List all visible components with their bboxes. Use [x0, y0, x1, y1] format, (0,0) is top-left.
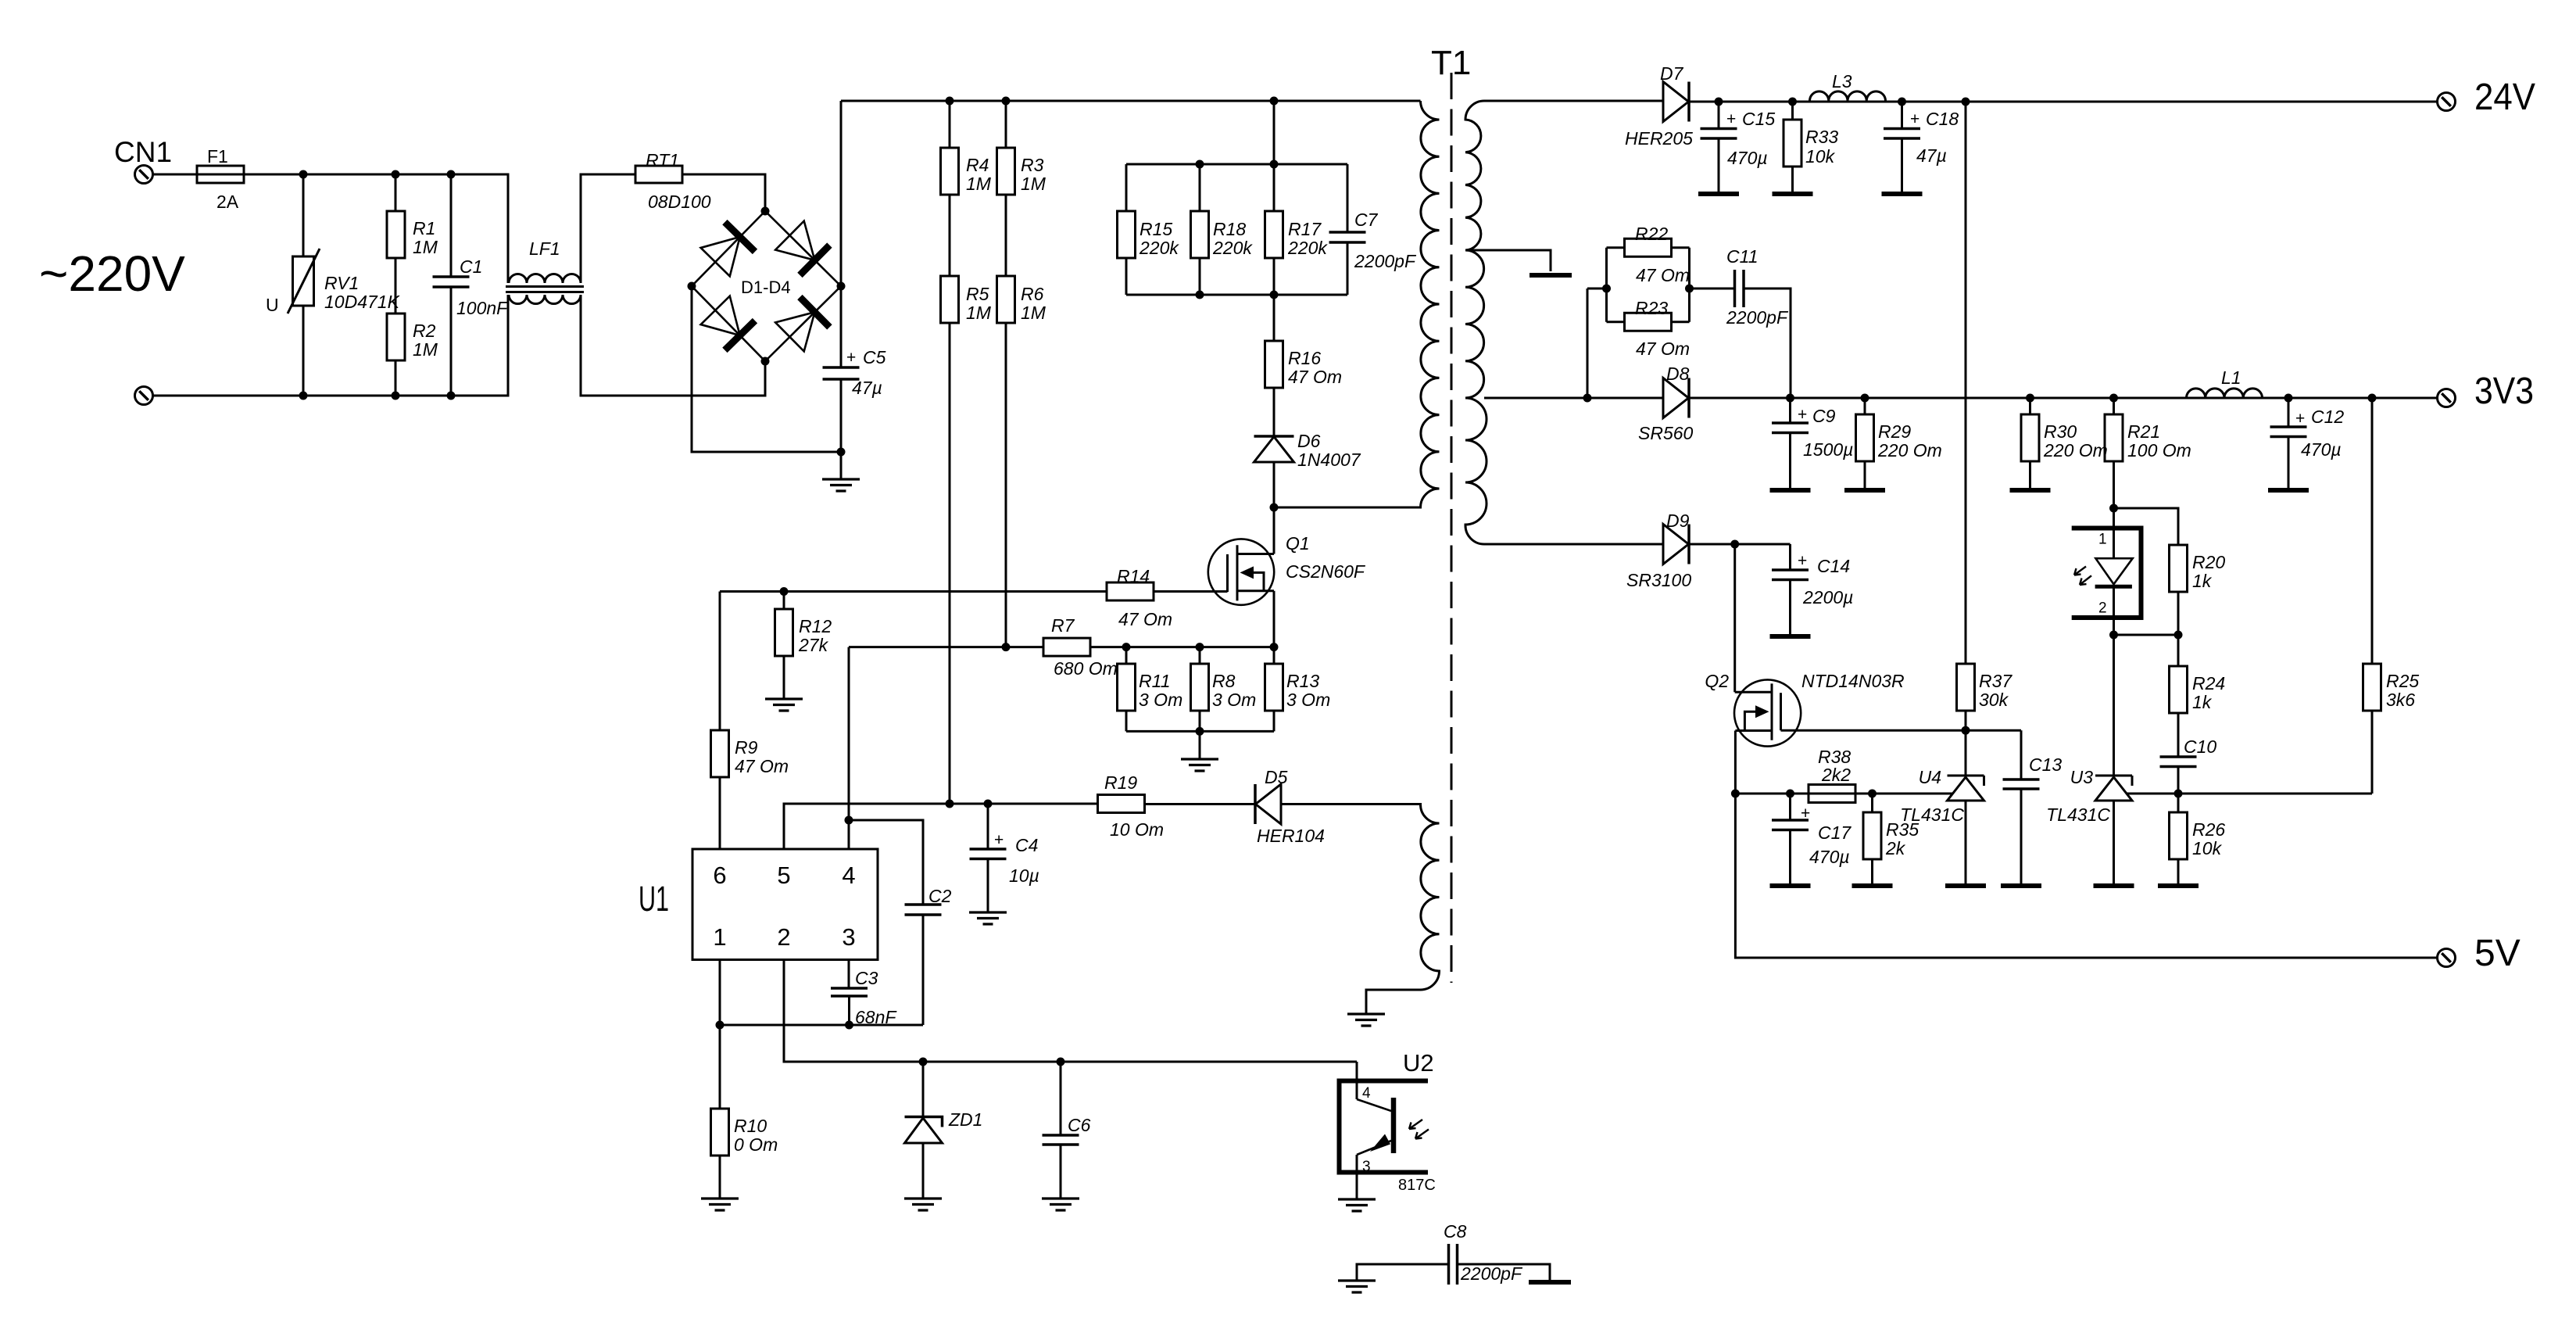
- svg-text:47µ: 47µ: [1916, 145, 1947, 166]
- svg-text:220 Om: 220 Om: [1877, 440, 1942, 460]
- svg-text:2200pF: 2200pF: [1354, 251, 1417, 271]
- svg-text:2: 2: [2098, 600, 2107, 617]
- resistor R38: [1809, 785, 1855, 803]
- capacitor C18: [1901, 102, 1903, 129]
- svg-text:47 Om: 47 Om: [1636, 339, 1690, 359]
- transistor Q1 CS2N60F: [1208, 539, 1274, 604]
- svg-text:U4: U4: [1919, 767, 1941, 787]
- ground C12: [2268, 488, 2309, 493]
- svg-text:R12: R12: [799, 616, 832, 636]
- wire 3V3 to R25: [2371, 398, 2374, 664]
- node C9: [1786, 394, 1794, 403]
- wire R19 to D5: [1145, 803, 1256, 805]
- svg-text:4: 4: [1362, 1085, 1371, 1102]
- svg-text:4: 4: [842, 862, 855, 889]
- ground below R10: [719, 1156, 721, 1199]
- wire U3 anode ground: [2113, 801, 2115, 884]
- node R33: [1788, 98, 1797, 106]
- svg-text:+: +: [1798, 406, 1807, 424]
- svg-text:~220V: ~220V: [39, 245, 185, 302]
- capacitor C1: [450, 174, 453, 277]
- svg-text:LF1: LF1: [529, 238, 560, 259]
- diode D5 HER104: [1255, 784, 1281, 824]
- resistor R26: [2177, 794, 2180, 812]
- svg-text:C12: C12: [2311, 407, 2344, 427]
- bridge rectifier D1-D4 diamond: [692, 211, 841, 361]
- svg-text:5V: 5V: [2474, 933, 2521, 974]
- ground R33: [1773, 192, 1813, 196]
- ground R30: [2010, 488, 2051, 493]
- resistor R21: [2113, 398, 2115, 414]
- wire R25 to ref rail: [2371, 711, 2374, 794]
- wire LED node to R20: [2114, 508, 2179, 545]
- svg-text:R21: R21: [2127, 421, 2160, 442]
- svg-text:6: 6: [713, 862, 726, 889]
- svg-text:24V: 24V: [2474, 77, 2535, 118]
- svg-text:D6: D6: [1297, 431, 1321, 451]
- node R30: [2026, 394, 2034, 403]
- shunt regulator U4 TL431C: [1948, 776, 1984, 801]
- wire Q2 source lead: [1734, 731, 1737, 794]
- svg-text:R13: R13: [1286, 671, 1319, 691]
- svg-text:R23: R23: [1635, 298, 1668, 318]
- resistor R25: [2363, 664, 2381, 711]
- svg-text:R37: R37: [1979, 671, 2012, 691]
- capacitor C17: [1789, 794, 1791, 820]
- svg-text:680 Om: 680 Om: [1054, 658, 1118, 679]
- resistor R35: [1871, 794, 1873, 812]
- svg-text:3k6: 3k6: [2386, 690, 2415, 710]
- node sense bottom: [1196, 727, 1204, 736]
- svg-text:C5: C5: [863, 347, 886, 367]
- wire snubber top rail: [1126, 163, 1347, 166]
- svg-text:R30: R30: [2044, 421, 2077, 442]
- svg-text:D1-D4: D1-D4: [741, 278, 791, 297]
- svg-text:100nF: 100nF: [456, 298, 509, 318]
- bridge diode top-right: [775, 220, 829, 275]
- node C10-R26: [2174, 790, 2183, 798]
- T1 core dashed line: [1451, 73, 1453, 983]
- wire LED node down to U3: [2113, 635, 2115, 776]
- wire C8 left to ground: [1357, 1264, 1449, 1281]
- resistor R6: [997, 276, 1015, 323]
- opto LED light arrows: [2074, 567, 2091, 586]
- node sense R11: [1122, 643, 1131, 651]
- wire Q2 source rail: [1735, 793, 1952, 795]
- node neutral-C1: [447, 392, 456, 400]
- svg-text:2200µ: 2200µ: [1802, 587, 1853, 607]
- capacitor C9: [1789, 398, 1791, 423]
- fuse F1: [197, 166, 244, 183]
- svg-text:470µ: 470µ: [2301, 439, 2342, 460]
- svg-text:R25: R25: [2386, 671, 2419, 691]
- svg-text:D5: D5: [1265, 767, 1288, 787]
- svg-text:NTD14N03R: NTD14N03R: [1801, 671, 1905, 691]
- svg-text:10µ: 10µ: [1009, 865, 1039, 886]
- svg-text:1: 1: [2098, 532, 2107, 548]
- wire LF1 bottom to bridge bottom: [581, 295, 765, 396]
- svg-text:3 Om: 3 Om: [1286, 690, 1330, 710]
- svg-text:10k: 10k: [1805, 146, 1836, 167]
- terminal 5V: [2438, 949, 2456, 967]
- resistor R12: [783, 592, 785, 610]
- svg-text:0 Om: 0 Om: [734, 1134, 778, 1155]
- capacitor C12: [2288, 398, 2290, 427]
- wire 5V return: [1735, 794, 2437, 958]
- resistor R13: [1273, 647, 1275, 664]
- U2 light arrows: [1409, 1120, 1429, 1139]
- resistor R30: [2029, 398, 2031, 414]
- resistor R37: [1957, 664, 1975, 711]
- svg-text:R2: R2: [413, 321, 436, 341]
- capacitor C15: [1718, 102, 1720, 129]
- svg-text:C9: C9: [1812, 406, 1836, 426]
- svg-text:R29: R29: [1878, 421, 1911, 442]
- wire pin5 to PWM rail: [784, 804, 1098, 849]
- svg-text:2k: 2k: [1885, 838, 1906, 858]
- svg-text:220k: 220k: [1139, 238, 1179, 258]
- svg-text:+: +: [846, 349, 856, 367]
- wire live terminal to fuse: [152, 174, 197, 176]
- svg-text:220 Om: 220 Om: [2043, 440, 2108, 460]
- svg-text:C13: C13: [2029, 754, 2062, 775]
- ground R26: [2158, 883, 2199, 888]
- resistor R2: [387, 314, 405, 360]
- svg-text:F1: F1: [207, 146, 228, 167]
- ground below R12: [783, 656, 785, 699]
- wire R4-R5: [949, 195, 951, 276]
- svg-text:2200pF: 2200pF: [1726, 307, 1789, 328]
- wire R1-R2: [395, 258, 397, 314]
- wire U4 anode to ground: [1965, 801, 1967, 884]
- svg-text:1M: 1M: [1021, 303, 1046, 323]
- resistor R29: [1864, 398, 1866, 414]
- node sense R8: [1196, 643, 1204, 651]
- wire C11 to C9 node: [1744, 288, 1791, 398]
- capacitor C3: [831, 988, 868, 996]
- T1 secondary winding lower: [1465, 398, 1663, 544]
- capacitor C8: [1449, 1244, 1458, 1285]
- wire bridge DC- to ground node: [692, 286, 841, 452]
- capacitor C13: [2020, 730, 2023, 779]
- ground sense: [1199, 731, 1201, 759]
- svg-text:SR560: SR560: [1638, 423, 1694, 443]
- node gate rail R12: [780, 587, 789, 596]
- svg-text:R16: R16: [1288, 348, 1321, 368]
- svg-text:1: 1: [713, 923, 726, 951]
- inductor L3: [1793, 101, 1810, 103]
- resistor R14 gate: [1107, 582, 1154, 600]
- ground below ZD1: [904, 1199, 942, 1210]
- zener ZD1: [922, 1062, 925, 1117]
- resistor R33: [1791, 102, 1794, 120]
- node R38 right: [1868, 790, 1877, 798]
- resistor R9: [711, 730, 729, 777]
- resistor R4: [949, 101, 951, 148]
- shunt regulator U3 TL431C: [2095, 776, 2132, 801]
- capacitor C4: [987, 804, 989, 849]
- svg-text:SR3100: SR3100: [1626, 570, 1691, 590]
- wire Q1 drain: [1273, 507, 1275, 554]
- svg-text:08D100: 08D100: [648, 192, 711, 212]
- terminal CN1 live: [135, 166, 153, 184]
- svg-text:1M: 1M: [966, 174, 992, 194]
- wire pin1 down: [719, 960, 721, 1109]
- svg-text:U: U: [266, 295, 279, 315]
- node live-RV1: [299, 170, 308, 179]
- svg-text:+: +: [2295, 410, 2305, 428]
- T1 secondary center tap to ground bar: [1465, 250, 1551, 271]
- svg-text:CS2N60F: CS2N60F: [1286, 561, 1366, 582]
- wire R21 to opto LED: [2113, 461, 2115, 508]
- svg-text:C3: C3: [855, 968, 878, 988]
- wire branch to C2: [849, 820, 923, 905]
- wire fuse to LF1 top: [244, 174, 508, 283]
- wire C2 down to pin1 rail: [922, 915, 925, 1025]
- wire D6 anode to drain node: [1273, 462, 1275, 507]
- svg-text:R5: R5: [966, 284, 989, 304]
- wire 24V rail: [1689, 101, 2437, 103]
- ground U2 pin3: [1338, 1199, 1376, 1211]
- node HV-R3: [1002, 97, 1011, 106]
- node bridge top: [761, 207, 770, 216]
- node neutral-RV1: [299, 392, 308, 400]
- wire R9 to U1 pin6: [719, 777, 721, 849]
- capacitor C11: [1690, 288, 1735, 290]
- wire R7 to sense rail: [1090, 646, 1274, 648]
- wire LED bottom to R20 bottom: [2114, 634, 2179, 636]
- wire pin1 ground rail: [720, 1024, 923, 1027]
- node gate-R37: [1962, 726, 1970, 735]
- svg-text:1N4007: 1N4007: [1297, 450, 1361, 470]
- node R21: [2109, 394, 2118, 403]
- common-mode choke LF1: [509, 274, 581, 284]
- node C5 minus: [837, 448, 846, 457]
- svg-text:5: 5: [777, 862, 790, 889]
- svg-text:10D471K: 10D471K: [324, 292, 401, 312]
- svg-text:R33: R33: [1805, 127, 1838, 147]
- svg-text:R24: R24: [2192, 673, 2225, 693]
- svg-text:R3: R3: [1021, 155, 1044, 175]
- diode D9 SR3100: [1663, 525, 1689, 564]
- svg-text:2200pF: 2200pF: [1460, 1263, 1523, 1284]
- node C18: [1898, 98, 1906, 106]
- node pin1: [716, 1021, 724, 1030]
- node PWM rail R5: [946, 800, 954, 808]
- svg-text:R4: R4: [966, 155, 989, 175]
- terminal 24V: [2438, 93, 2456, 111]
- wire U2 pin4: [1356, 1062, 1358, 1099]
- resistor R15: [1125, 164, 1128, 211]
- resistor R10: [711, 1109, 729, 1156]
- node drain-primary: [1270, 503, 1279, 512]
- svg-text:1M: 1M: [1021, 174, 1046, 194]
- node live-C1: [447, 170, 456, 179]
- wire R6 down to R7 node: [1005, 323, 1007, 647]
- capacitor C10: [2177, 713, 2180, 757]
- node C15: [1715, 98, 1723, 106]
- resistor R24: [2177, 635, 2180, 666]
- wire HV rail: [841, 100, 1421, 102]
- svg-text:R35: R35: [1886, 819, 1919, 840]
- capacitor C5: [840, 286, 843, 367]
- svg-text:ZD1: ZD1: [948, 1109, 982, 1130]
- svg-text:100 Om: 100 Om: [2127, 440, 2191, 460]
- wire tap to D8: [1484, 397, 1663, 400]
- IC U1 box: [692, 849, 878, 960]
- node tap-R22R23: [1583, 394, 1592, 403]
- svg-text:47 Om: 47 Om: [1288, 367, 1342, 387]
- resistor R7: [1043, 638, 1090, 656]
- node R7 left: [1002, 643, 1011, 651]
- wire D9 to C14: [1689, 543, 1791, 546]
- wire rail to R9: [719, 592, 721, 731]
- wire pin4 up to R7: [848, 647, 850, 849]
- svg-text:D7: D7: [1660, 63, 1684, 84]
- node bridge bottom: [761, 357, 770, 366]
- svg-text:10k: 10k: [2192, 838, 2223, 858]
- ground C15: [1698, 192, 1739, 196]
- terminal 3V3: [2438, 389, 2456, 407]
- node HV-snubber: [1270, 97, 1279, 106]
- node Q2 source: [1731, 790, 1740, 798]
- resistor R22: [1607, 246, 1625, 249]
- wire U3 ref rail: [2127, 793, 2372, 795]
- wire gate drive rail: [720, 590, 1107, 593]
- svg-text:R10: R10: [734, 1116, 767, 1136]
- svg-text:HER205: HER205: [1625, 128, 1693, 149]
- node live-R1: [392, 170, 400, 179]
- terminal CN1 neutral: [135, 387, 153, 405]
- wire R5 down to PWM rail: [949, 323, 951, 804]
- svg-text:L3: L3: [1832, 71, 1852, 91]
- svg-text:47 Om: 47 Om: [1636, 265, 1690, 285]
- node HV-R4: [946, 97, 954, 106]
- svg-text:R9: R9: [735, 737, 758, 758]
- node bridge left: [688, 282, 696, 291]
- svg-text:1k: 1k: [2192, 571, 2213, 591]
- svg-text:+: +: [1798, 552, 1807, 570]
- svg-text:2A: 2A: [216, 192, 239, 212]
- svg-text:R6: R6: [1021, 284, 1044, 304]
- resistor R17: [1273, 164, 1275, 211]
- svg-text:3: 3: [842, 923, 855, 951]
- node ZD1: [919, 1058, 928, 1066]
- svg-text:RT1: RT1: [646, 150, 679, 170]
- resistor R5: [941, 276, 959, 323]
- ground C9: [1770, 488, 1811, 493]
- svg-text:1k: 1k: [2192, 692, 2213, 712]
- svg-text:R8: R8: [1212, 671, 1236, 691]
- wire snubber feed: [1273, 101, 1275, 164]
- resistor R1: [395, 174, 397, 211]
- resistor R16: [1273, 295, 1275, 341]
- svg-text:47µ: 47µ: [852, 378, 882, 398]
- node snubber bottom R18: [1196, 291, 1204, 299]
- svg-text:C6: C6: [1068, 1115, 1091, 1135]
- svg-text:1500µ: 1500µ: [1803, 439, 1853, 460]
- resistor R18: [1199, 164, 1201, 211]
- node snubber bottom R16: [1270, 291, 1279, 299]
- node R29: [1861, 394, 1869, 403]
- svg-text:R18: R18: [1213, 219, 1246, 239]
- svg-text:R19: R19: [1104, 772, 1137, 793]
- wire Q2 gate to R37: [1781, 729, 2022, 732]
- svg-text:3 Om: 3 Om: [1139, 690, 1182, 710]
- wire R14 to gate: [1154, 590, 1228, 593]
- svg-text:Q1: Q1: [1286, 533, 1310, 554]
- ground C18: [1882, 192, 1923, 196]
- svg-text:U1: U1: [639, 879, 669, 919]
- resistor R19: [1098, 795, 1145, 813]
- svg-text:TL431C: TL431C: [2046, 804, 2110, 825]
- wire up to R22/R23: [1587, 288, 1589, 398]
- node C3-rail: [845, 1021, 853, 1030]
- svg-text:+: +: [1726, 110, 1736, 128]
- ground below C4: [987, 859, 989, 913]
- svg-text:R11: R11: [1139, 671, 1171, 691]
- wire bridge DC+ up to HV rail: [840, 101, 843, 286]
- bridge diode bottom-left: [700, 296, 755, 350]
- inductor L1: [2187, 389, 2263, 398]
- thermistor RT1: [635, 166, 682, 183]
- svg-text:C10: C10: [2184, 736, 2216, 757]
- bridge diode top-left: [700, 222, 755, 277]
- wire Q1 source: [1273, 591, 1275, 647]
- svg-text:470µ: 470µ: [1727, 148, 1768, 168]
- wire 3V3 rail: [1689, 397, 2437, 400]
- capacitor C2: [905, 905, 942, 915]
- svg-text:+: +: [994, 831, 1004, 849]
- svg-text:1M: 1M: [966, 303, 992, 323]
- node R25 takeoff: [2368, 394, 2377, 403]
- svg-text:C8: C8: [1444, 1221, 1467, 1242]
- svg-text:3 Om: 3 Om: [1212, 690, 1256, 710]
- node sense R13: [1270, 643, 1279, 651]
- svg-text:3V3: 3V3: [2474, 371, 2534, 412]
- resistor R20: [2170, 545, 2188, 592]
- wire R3-R6: [1005, 195, 1007, 276]
- node PWM rail C4: [984, 800, 993, 808]
- diode D8 SR560: [1663, 378, 1689, 418]
- ground C13: [2001, 883, 2041, 888]
- diode D7 HER205: [1663, 82, 1689, 122]
- wire source rail: [849, 646, 1043, 648]
- svg-text:817C: 817C: [1398, 1177, 1436, 1194]
- svg-text:+: +: [1910, 110, 1919, 128]
- svg-text:3: 3: [1362, 1159, 1371, 1175]
- wire U2 pin3: [1356, 1155, 1358, 1199]
- resistor R11: [1125, 647, 1128, 664]
- svg-text:10 Om: 10 Om: [1110, 819, 1164, 840]
- svg-text:RV1: RV1: [324, 273, 359, 293]
- wire neutral run: [152, 295, 508, 396]
- optocoupler U2 LED side box: [2072, 529, 2141, 618]
- svg-text:R14: R14: [1117, 566, 1150, 586]
- node snubber top R17: [1270, 160, 1279, 169]
- svg-text:C18: C18: [1926, 109, 1959, 129]
- node right bracket: [1685, 285, 1694, 293]
- svg-text:HER104: HER104: [1257, 826, 1325, 846]
- ground below C6: [1060, 1145, 1062, 1199]
- svg-text:220k: 220k: [1287, 238, 1328, 258]
- transistor Q2 NTD14N03R: [1734, 679, 1801, 746]
- node neutral-R2: [392, 392, 400, 400]
- varistor RV1: [302, 174, 305, 256]
- resistor R8: [1199, 647, 1201, 664]
- svg-text:R22: R22: [1635, 224, 1668, 244]
- svg-text:D8: D8: [1666, 364, 1690, 384]
